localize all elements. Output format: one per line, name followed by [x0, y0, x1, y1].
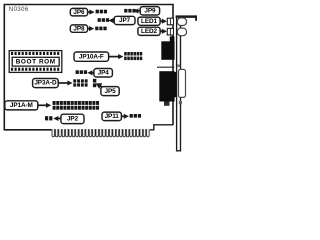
jumper JP11	[130, 114, 141, 118]
label JP7	[114, 16, 135, 24]
BNC connector top tab	[170, 36, 175, 42]
label JP6	[70, 8, 87, 16]
jumper JP7	[98, 18, 109, 22]
BOOT ROM chip socket	[9, 51, 62, 73]
svg-text:JP11: JP11	[105, 113, 120, 120]
svg-text:JP9: JP9	[144, 8, 156, 15]
label JP4	[94, 69, 113, 78]
AUI connector body (lower black block)	[159, 71, 174, 101]
LED2 dome through bracket	[177, 28, 186, 36]
board outline (PCB edge)	[4, 5, 173, 130]
AUI connector top plate line	[157, 66, 174, 68]
label JP3A-D	[33, 79, 59, 88]
svg-text:LED1: LED1	[141, 18, 157, 25]
screw post above DB15	[177, 64, 180, 67]
jumper JP2 (pair)	[45, 116, 52, 120]
arrow for JP3A-D	[58, 80, 72, 85]
BNC connector body (upper black block)	[161, 41, 174, 60]
jumper block JP1A-M	[53, 101, 99, 110]
arrow for JP7	[108, 18, 114, 23]
svg-text:JP6: JP6	[73, 9, 85, 16]
jumper JP6	[96, 10, 107, 14]
arrow for JP11	[121, 114, 129, 119]
svg-text:JP5: JP5	[105, 88, 117, 95]
svg-text:JP1A-M: JP1A-M	[10, 102, 33, 109]
label JP9	[140, 7, 159, 15]
mounting bracket body	[177, 17, 181, 151]
svg-text:JP10A-F: JP10A-F	[79, 53, 104, 60]
mounting bracket top flange	[176, 15, 197, 20]
jumper block JP3A-D	[73, 79, 87, 86]
svg-text:JP2: JP2	[67, 116, 79, 123]
label JP5	[101, 87, 119, 96]
svg-text:JP4: JP4	[98, 70, 110, 77]
jumper JP5 (vertical pair)	[93, 79, 96, 87]
svg-text:JP7: JP7	[119, 17, 131, 24]
svg-text:JP8: JP8	[73, 25, 85, 32]
arrow for LED2	[160, 29, 167, 34]
edge connector (gold fingers comb)	[52, 129, 149, 137]
screw post below DB15	[179, 101, 182, 104]
arrow for JP1A-M	[38, 103, 51, 108]
label JP2	[61, 114, 84, 123]
DB15 shell outside bracket	[179, 69, 186, 97]
label JP8	[70, 25, 87, 32]
BOOT ROM label plate	[12, 57, 59, 66]
arrow for JP9	[133, 8, 140, 13]
label LED2	[138, 27, 160, 35]
LED2 body	[167, 28, 173, 35]
label LED1	[138, 17, 160, 25]
arrow for JP5	[96, 83, 105, 89]
arrow for JP10A-F	[109, 54, 124, 59]
label JP11	[102, 112, 121, 121]
board bottom edge right of connector	[150, 125, 173, 130]
jumper JP9	[124, 9, 135, 13]
label JP1A-M	[5, 101, 38, 110]
arrow for JP4	[87, 70, 94, 75]
label JP10A-F	[74, 52, 109, 61]
LED1 dome through bracket	[177, 18, 186, 26]
jumper JP8	[95, 27, 106, 31]
arrow for JP2	[53, 116, 61, 121]
arrow for JP8	[88, 26, 95, 31]
svg-text:LED2: LED2	[141, 28, 157, 35]
svg-text:N0306: N0306	[9, 6, 29, 13]
connector mounting lug bottom	[164, 102, 170, 106]
LED1 body	[167, 18, 173, 25]
arrow for JP6	[88, 10, 95, 15]
svg-text:JP3A-D: JP3A-D	[34, 80, 57, 87]
AUI connector neck through bracket	[174, 72, 176, 97]
svg-text:BOOT ROM: BOOT ROM	[16, 59, 56, 66]
jumper JP4	[76, 70, 87, 74]
jumper block JP10A-F	[124, 52, 142, 60]
arrow for LED1	[160, 19, 167, 24]
